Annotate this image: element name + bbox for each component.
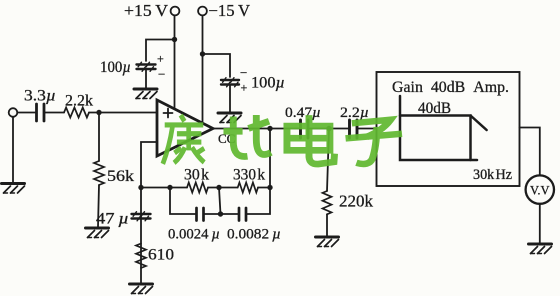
-15V terminal (198, 7, 207, 16)
capacitor C 100u right (electrolytic) (221, 80, 239, 85)
resistor 610 (136, 244, 146, 269)
amplifier block box (377, 72, 520, 186)
svg-text:+15 V: +15 V (124, 1, 168, 20)
wire R1 to op-amp + input (89, 112, 157, 114)
wire 56k to gnd (98, 185, 99, 227)
svg-text:2.2k: 2.2k (65, 93, 93, 110)
svg-text:2.2µ: 2.2µ (340, 105, 369, 121)
ground meter (529, 244, 552, 254)
node row dot b (216, 185, 221, 190)
wire cap row left drop (170, 188, 196, 215)
svg-text:100µ: 100µ (100, 59, 131, 76)
resistor 220k (323, 191, 332, 214)
ground input (2, 184, 25, 194)
svg-text:100µ: 100µ (251, 75, 285, 92)
resistor 330k (238, 183, 258, 193)
svg-text:30 k: 30 k (184, 167, 209, 184)
svg-text:30k Hz: 30k Hz (473, 167, 512, 183)
resistor 30k (187, 183, 208, 193)
wire meter to gnd (539, 204, 541, 243)
node feedback row junction (138, 185, 143, 190)
ground C100u right (218, 113, 241, 123)
wire input to C1 (17, 112, 36, 114)
wire C1 to R1 (45, 112, 65, 114)
node row dot c (267, 185, 272, 190)
svg-text:610: 610 (148, 247, 174, 264)
wire output (213, 128, 300, 130)
ground 56k (86, 228, 109, 238)
watermark 康比电子 (163, 115, 402, 164)
wire box to meter (520, 128, 540, 176)
wire inverting input feedback (141, 142, 157, 283)
svg-text:0.0024 µ: 0.0024 µ (168, 227, 220, 243)
svg-text:0.47µ: 0.47µ (285, 105, 321, 121)
watermark char bi (223, 115, 271, 156)
ground C100u left (134, 89, 157, 99)
wire 30k to 330k (208, 187, 238, 189)
ground 220k (316, 237, 339, 247)
svg-text:47 µ: 47 µ (96, 211, 129, 228)
wire 220k to gnd (326, 214, 328, 236)
wire C100u right to gnd (229, 85, 231, 112)
capacitor C 0.0082u (239, 208, 246, 221)
wire 56k branch (98, 113, 100, 162)
ground 610 (130, 284, 153, 294)
node row dot a (167, 185, 172, 190)
node +15 junction (172, 37, 177, 42)
meter V.V (526, 175, 554, 203)
capacitor C 3.3u (37, 104, 45, 121)
svg-text:0.0082 µ: 0.0082 µ (227, 227, 281, 243)
+15V terminal (171, 7, 180, 16)
resistor 2.2k (64, 108, 89, 118)
wire cap row right rise (247, 188, 271, 215)
svg-text:220k: 220k (339, 192, 374, 211)
svg-text:56k: 56k (107, 168, 134, 185)
op-amp U1 (157, 100, 213, 156)
node output-220k junction (326, 126, 331, 131)
watermark char kang (163, 115, 204, 164)
wire mid vertical (219, 188, 221, 215)
node output-feedback junction (267, 126, 272, 131)
svg-text:330 k: 330 k (233, 167, 265, 184)
wire cap row mid (204, 213, 239, 215)
svg-text:−: − (240, 65, 247, 80)
svg-text:Gain 40dB Amp.: Gain 40dB Amp. (392, 79, 509, 96)
svg-text:−15 V: −15 V (209, 1, 251, 20)
wire output node down (269, 129, 271, 188)
wire to C 100u right (203, 54, 231, 77)
wire 330k to output node (258, 187, 270, 189)
svg-text:+: + (157, 52, 164, 66)
capacitor C 47u (electrolytic) (132, 214, 151, 219)
node cap row mid (218, 211, 223, 216)
wire C2.2 to box (358, 128, 377, 130)
node input junction (96, 110, 101, 115)
wire 220k branch (327, 129, 329, 192)
label + input (164, 109, 173, 118)
watermark char dian (287, 115, 335, 164)
resistor 56k (94, 161, 104, 185)
svg-text:+: + (241, 81, 248, 95)
capacitor C 0.47u (301, 120, 309, 138)
graph axes (400, 96, 477, 160)
wire +15V rail down to op-amp (174, 15, 176, 109)
input terminal (9, 108, 18, 117)
svg-text:−: − (158, 67, 165, 82)
wire resistor row (141, 187, 187, 189)
watermark char zi (346, 120, 402, 164)
wire C0.47 to C2.2 (309, 128, 350, 130)
capacitor C 100u left (electrolytic) (137, 65, 156, 70)
wire C100u left to gnd (145, 70, 147, 89)
node -15 junction (200, 51, 205, 56)
wire input gnd branch (12, 117, 14, 183)
wire -15V rail down to op-amp (202, 15, 204, 122)
graph response curve (400, 116, 487, 161)
svg-text:3.3µ: 3.3µ (24, 88, 56, 105)
capacitor C 0.0024u (197, 208, 204, 221)
capacitor C 2.2u (350, 120, 358, 138)
svg-text:V.V: V.V (530, 183, 550, 197)
wire to C 100u left (146, 40, 175, 62)
